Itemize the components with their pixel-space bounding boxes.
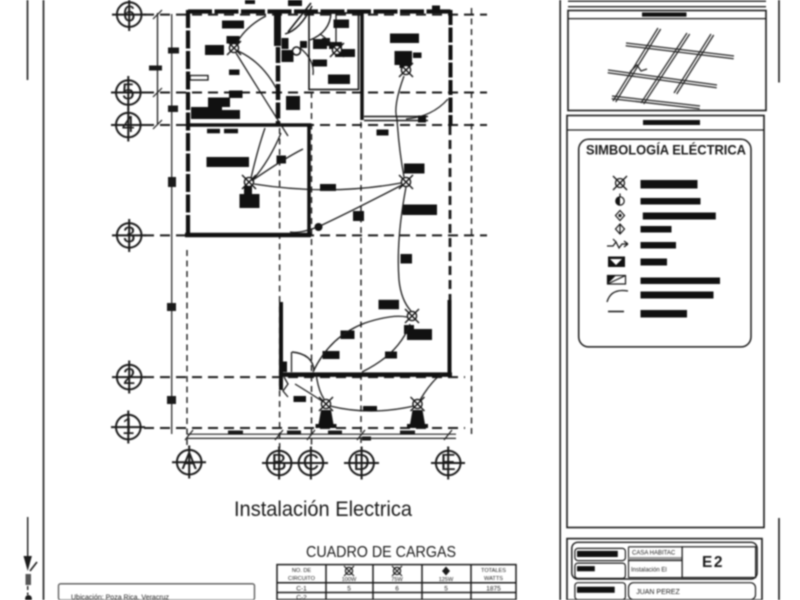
blob topright stem [400,60,411,68]
grid row 3 dashed [144,234,487,236]
svg-text:4: 4 [122,111,135,137]
svg-text:B: B [271,449,286,475]
lamp L3 [399,63,413,77]
blob topright a [390,34,419,44]
grid row 6 dashed [144,14,487,16]
fixture base L7 [316,424,337,428]
svg-text:TOTALES: TOTALES [481,568,506,574]
dim text 1.50 below [362,437,371,441]
svg-text:JUAN PEREZ: JUAN PEREZ [636,589,680,596]
blob smallroom a [334,20,350,29]
wall bottom-room left [279,302,283,390]
svg-text:6: 6 [123,1,136,27]
right panel divider line [559,0,561,600]
blob room1 c [205,45,224,55]
grid col C dashed [311,92,313,448]
tb E2 cell [682,547,756,578]
blob smallroom b [329,42,342,49]
dim text above wall E [432,6,440,10]
wall top-right room right E [449,10,453,126]
small room outline [309,13,359,90]
svg-text:A: A [182,448,198,474]
svg-text:100W: 100W [342,577,357,583]
wire loop bottomroom up [313,316,407,372]
wire L3 door arc [406,99,448,119]
north arrow stem dash [27,586,29,595]
dim tick bot [153,120,162,129]
left margin short line [27,0,29,80]
tb cell L2 [575,563,626,578]
grid bubble 1 [111,411,145,444]
grid bubble 2 [112,361,146,394]
tb bar L2 [577,566,595,571]
blob midright d [379,300,400,310]
sym row2 halfcircle [616,194,624,206]
grid bubble E [431,447,465,480]
lamp L4 [242,175,256,189]
wire switch zigzag left [283,377,288,397]
wire small room [320,34,334,46]
sym row5 arrow [607,239,628,248]
sym row7 bar [641,278,721,285]
map street EW 2 [608,70,717,88]
dim text top left [245,0,255,4]
blob room1 d [229,70,240,76]
entry arc b [310,13,331,40]
sym row9 bar [641,310,688,318]
right border top segment [778,0,780,83]
sym row3 bar [643,213,716,220]
sym row4 diamond line [616,224,625,234]
wire entry curl [300,48,313,75]
switch bottom left wall [279,362,287,373]
entry zone dense details [274,3,336,110]
blob bottomroom c [385,352,397,359]
entry lamp circle [293,47,301,55]
sym row4 bar [641,226,672,233]
wire L7 to L8 [330,406,414,411]
lamp L8 [411,397,425,411]
entry wall stub [274,11,281,46]
grid row 2 dashed [144,376,465,378]
blob hall b [353,211,364,221]
wire L1 right [238,51,276,88]
dim text mid rotated [168,177,176,187]
grid row 5 dashed [144,92,487,94]
fixture base L8 [407,424,428,428]
dim tick mid [153,88,162,97]
blob room1 b [227,36,240,44]
lamp L7 [319,397,333,411]
title block outer [567,539,762,600]
wall row4 horizontal [188,123,311,127]
dim text 2.90 [400,431,415,435]
dim text 0.9 rotated [167,303,176,311]
table lamp symbol col2 [344,566,354,576]
sym row1 bar [641,180,698,189]
wall top-right room bottom double [364,116,428,118]
top cut box edge [568,1,766,7]
wire L4 to L5 [254,183,401,190]
blob bedroom a [207,157,250,167]
wire L7 up-left [295,384,322,401]
table diamond symbol col4 [442,567,450,576]
svg-text:SIMBOLOGÍA ELÉCTRICA: SIMBOLOGÍA ELÉCTRICA [586,142,746,158]
blob room1 h [222,110,240,119]
wall bedroom right [307,125,311,236]
north arrow dot [25,595,32,600]
door swing bottom room [292,352,314,371]
map box [568,11,766,111]
dim text 3.18 [228,431,243,435]
grid row 4 dashed [144,124,487,126]
map box title line [568,18,766,20]
right border bottom segment [778,518,780,600]
entry door arc [285,6,312,34]
junction dot hall [315,223,323,231]
svg-text:C: C [303,449,320,475]
dim text 1.5b rotated [167,396,176,404]
tb bar L1 [577,551,618,557]
map street NE 1 [608,28,734,109]
blob midright a [404,164,425,174]
blob below topright room [377,130,389,136]
grid bubble A [172,446,206,479]
entry blob c [322,38,330,46]
tb gray strip [629,557,682,561]
map street NE 3 [674,34,714,94]
wall bedroom bottom [185,233,311,238]
svg-text:C-1: C-1 [296,586,307,593]
grid col D dashed [360,122,362,448]
svg-text:6: 6 [395,586,399,593]
svg-text:C-2: C-2 [296,595,307,600]
map street NE 2 [641,33,690,104]
grid bubble labels [122,1,456,476]
wall bottom-room right E [448,300,452,377]
tb cell juan [629,583,756,600]
entry blob a [282,38,289,49]
sym row8 arc [607,290,628,302]
grid bubble 4 [111,109,145,142]
blob bottomroom a [341,331,355,340]
blob topright b [395,51,413,65]
grid bubble 6 [112,0,146,31]
wire L5 down-left [290,185,402,232]
simbologia outer box [567,116,764,528]
fixture under L7 [318,410,334,427]
dim text top entry [288,0,302,6]
blob smallroom e [328,75,350,85]
lamp L5 [399,175,413,189]
tb bar L3 [577,587,615,593]
sym row2 bar [641,198,701,205]
sym row9 line [608,311,624,313]
wall bottom [279,372,452,377]
lamp L1 [227,41,241,55]
blob room1 a [222,21,244,29]
svg-text:D: D [353,449,370,475]
grid bubble D [344,447,379,480]
svg-text:E2: E2 [702,554,724,571]
grid col A dashed [186,250,188,448]
map street EW 1 [626,43,734,59]
fixture under L8 [410,410,426,427]
svg-text:3: 3 [123,222,136,248]
furniture/label blobs [190,0,440,412]
blob on wire bottom [363,406,377,412]
svg-text:125W: 125W [439,577,454,583]
svg-text:Instalación Electrica: Instalación Electrica [234,498,412,521]
north arrow head [24,556,32,571]
lamp L2 [330,43,344,57]
sym row3 diamond dot [616,211,625,221]
blob hall a [320,184,336,191]
dim text 1.5 rotated [149,66,162,71]
map box title bar [642,12,687,16]
ubicacion box [59,584,255,600]
blob left of L7 [294,396,307,402]
svg-text:NO. DE: NO. DE [292,568,312,574]
wire L1 down [236,53,288,136]
north arrow tick [30,562,37,571]
dim text 4.08 rotated [168,48,179,54]
svg-text:2: 2 [123,363,136,389]
svg-text:1875: 1875 [486,586,501,593]
load table frame [277,565,516,600]
grid bubble B [262,447,296,480]
wall top [188,9,453,13]
grid col E dashed [449,126,452,302]
title block inner rounded [572,542,757,579]
sym row7 switch rect [608,276,626,285]
grid bubble 5 [111,76,145,109]
blob bedroom b [240,194,260,208]
dim text 1.68 [328,431,342,435]
grid bubble 3 [112,219,146,252]
svg-text:Ubicación: Poza Rica, Veracruz: Ubicación: Poza Rica, Veracruz [71,595,170,600]
wall left [186,10,190,236]
door mark square [418,116,426,123]
blob topright c [413,53,422,59]
blob midright b [403,205,438,216]
blob midright c [401,254,413,264]
grid col E2 outer dashed [471,8,473,437]
left margin long line [43,0,45,600]
svg-text:5: 5 [347,586,351,593]
svg-text:WATTS: WATTS [484,576,503,582]
sym row6 contact [608,257,625,268]
dim tick top [153,10,162,19]
svg-text:5: 5 [122,79,135,105]
blob bottomroom b [404,325,414,334]
wire L4 up [251,128,265,178]
entry door leaf [288,3,311,32]
svg-text:5: 5 [444,586,448,593]
dim line vertical outer [171,14,173,434]
lamp L6 [405,309,419,323]
svg-text:75W: 75W [391,577,403,583]
wire L5 down [398,187,411,311]
blob room1 e [229,91,243,99]
window sill room1 [190,76,208,81]
blob smallroom c [335,49,355,57]
blob bottomroom d [323,351,340,359]
tb mid line [629,560,683,562]
blob room1 f [208,98,230,108]
wire loop bottomroom down [362,324,410,372]
svg-text:CUADRO DE CARGAS: CUADRO DE CARGAS [306,544,456,561]
grid col B dashed [279,128,281,448]
table row texts [296,586,501,600]
sym row1 lamp [613,176,627,190]
sym row8 bar [641,292,714,299]
grid row 1 dashed [144,427,465,429]
simbologia title bar [643,120,700,125]
map street EW 3 [612,96,700,109]
dim text 1.08 [287,431,301,435]
wire L1 up [236,16,266,44]
wall interior vertical B top [276,10,281,125]
blob bedroom b stem [244,186,252,195]
map lot mark [630,65,647,72]
blob grid B switch [277,156,287,164]
dim line vertical inner [157,13,159,124]
wires [236,16,448,411]
simbologia title line [567,129,764,131]
blob room1 g [191,107,222,119]
grid bubble C [294,447,328,480]
table lamp symbol col3 [392,566,402,576]
sym row5 bar [641,242,677,249]
svg-text:Instalación El: Instalación El [631,568,667,574]
wall top-right room left [360,11,364,120]
svg-text:1: 1 [122,413,135,439]
north arrow line [27,517,29,563]
svg-text:E: E [441,449,456,475]
simbologia rounded box [579,139,751,347]
tb center divider lines [629,547,683,578]
wire L3 down [396,76,404,119]
tb cell L3 [575,583,626,600]
tb cell L1 [575,548,626,560]
entry blob b [286,96,300,110]
table header texts [288,568,506,583]
svg-text:CASA HABITAC: CASA HABITAC [632,551,676,557]
north arrow hatched box [26,574,32,585]
dim marks bedroom top wall [207,129,220,134]
sym row6 bar [641,259,668,266]
svg-text:CIRCUITO: CIRCUITO [288,576,316,582]
bottom dimension double bar [185,430,456,440]
blob smallroom d [313,60,328,67]
wire L8 up [420,373,443,400]
